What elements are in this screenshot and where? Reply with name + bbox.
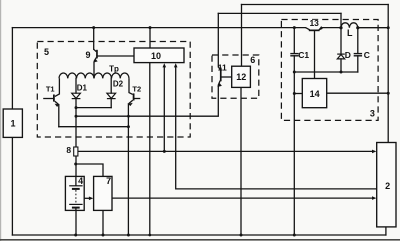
node : right vertical and box 14 output <box>387 92 390 95</box>
wire : feed from top rail down to transistor 9 <box>93 28 95 50</box>
component 8 <box>74 147 78 156</box>
svg-text:14: 14 <box>310 89 320 99</box>
svg-text:Tp: Tp <box>109 64 119 73</box>
wire : box 12 top pin up to topmost rail <box>241 5 243 67</box>
wire : transistor 11 collector to box 12 <box>222 76 232 78</box>
svg-text:5: 5 <box>44 47 49 57</box>
inductor L <box>341 23 358 28</box>
wire : C1 branch below capacitor to bottom rail <box>293 56 295 235</box>
wire : box 14 right output to right vertical <box>327 92 388 94</box>
svg-text:11: 11 <box>218 62 227 72</box>
wire : box 12 bottom pin down to bottom rail <box>240 87 242 235</box>
transformer Tp primary winding <box>59 73 129 78</box>
node : bottom rail at C1 line <box>293 234 296 237</box>
wire : topmost rail y=4.5 <box>242 4 389 6</box>
diode D <box>337 54 345 59</box>
dashed box 6 <box>212 55 259 98</box>
wire : component 8 junction to box 7 top <box>76 164 103 176</box>
wire : T1 emitter vertical <box>58 105 60 127</box>
svg-text:D1: D1 <box>77 84 88 93</box>
wire : D1 branch from winding tap down to component 8 <box>75 78 77 93</box>
wire : box 10 top pin to top rail <box>149 28 151 48</box>
wire : box 10 left bottom pin down to bottom rail <box>149 63 151 235</box>
wire : box 7 bottom pin to bottom rail <box>102 210 104 235</box>
wire : feed from upper rail down to transistor 11 base <box>217 13 219 66</box>
wire : upper rail y=13.4 <box>218 12 341 14</box>
svg-text:12: 12 <box>236 72 246 82</box>
wire : C branch from L right terminal down <box>357 28 359 54</box>
arrowhead into box 10 pin at x=164 <box>163 63 167 67</box>
wire : battery 4 output arrow to box 7 <box>84 197 90 199</box>
node : bottom rail at box 10 pin <box>148 234 151 237</box>
node : component 8 bottom junction <box>74 163 77 166</box>
wire : main top rail y=27.6 <box>12 27 305 29</box>
node : D branch and bottom rail of box 3 <box>340 71 343 74</box>
svg-text:10: 10 <box>151 51 161 61</box>
svg-text:4: 4 <box>78 176 83 186</box>
svg-text:C: C <box>364 50 370 60</box>
wire : rail from component 8 to block 2 arrow <box>78 150 374 152</box>
diode D2 <box>107 93 116 98</box>
node : top rail and box 10 pin <box>149 26 152 29</box>
arrowhead into block 2 upper <box>372 150 376 154</box>
dashed box 3 <box>281 20 378 121</box>
node : mid rail and box 10 arrow pin <box>163 150 166 153</box>
block 14 <box>302 79 326 108</box>
wire : outer loop left edge above block 1 <box>11 28 13 109</box>
capacitor C <box>354 54 362 56</box>
svg-text:T1: T1 <box>46 85 55 94</box>
node : D1 branch upper <box>75 106 78 109</box>
wire : C1 branch from top rail down <box>293 28 295 54</box>
svg-text:D: D <box>345 50 351 60</box>
svg-text:D2: D2 <box>113 79 124 88</box>
wire : L right terminal to right vertical <box>358 27 388 29</box>
wire : bottom rail stub up into block 2 <box>385 227 387 235</box>
wire : winding centre tap up to transistor 9 emitter <box>93 62 95 79</box>
wire : transistor 9 collector to box 10 <box>98 55 135 57</box>
node : bottom rail at box 12 line <box>240 234 243 237</box>
svg-text:C1: C1 <box>298 50 309 60</box>
dashed box 5 <box>37 42 190 138</box>
label white backing for 13 <box>309 20 321 26</box>
block 12 <box>232 66 251 87</box>
wire : rail joining D1 and D2 cathodes <box>76 107 111 109</box>
svg-text:6: 6 <box>250 55 255 65</box>
arrowhead battery to box 7 <box>89 197 93 201</box>
block 1 <box>3 109 22 137</box>
wire : outer loop left edge below block 1 <box>11 137 13 235</box>
wire : battery box bottom to bottom rail <box>75 210 77 235</box>
node : L right terminal <box>356 26 359 29</box>
transistor T2 <box>128 93 140 106</box>
svg-text:3: 3 <box>370 109 375 119</box>
wire : bottom ground rail <box>12 234 386 236</box>
node : D1 branch lower <box>75 115 78 118</box>
svg-text:T2: T2 <box>132 85 141 94</box>
node : bottom rail at battery <box>74 234 77 237</box>
wire : box 10 middle pin down to mid rail <box>163 66 165 152</box>
wire : box 7 output line to block 2 <box>112 197 374 199</box>
node : right vertical and L output rail <box>387 26 390 29</box>
transistor 13 <box>306 26 323 31</box>
node : bottom rail at T2 emitter line <box>127 234 130 237</box>
svg-text:1: 1 <box>10 119 15 129</box>
wire : D2 branch from winding tap down to D1-D2 rail <box>110 78 112 93</box>
svg-text:13: 13 <box>309 18 319 28</box>
battery cells inside box 4 <box>69 176 82 210</box>
svg-text:8: 8 <box>66 145 71 155</box>
wire : box 10 right pin down then right to block 2 <box>176 66 376 189</box>
wire : long rail from D1 to transistor 11 emitter <box>76 87 218 117</box>
node : top rail and transistor 9 feed <box>92 26 95 29</box>
wire : corner down to L left terminal <box>340 13 342 27</box>
capacitor C1 <box>290 54 298 56</box>
block 7 <box>94 176 112 210</box>
svg-text:L: L <box>347 28 353 38</box>
node : bottom rail at box 7 <box>102 234 105 237</box>
arrowhead into block 2 lower <box>372 196 376 200</box>
wire : winding right end down to T2 collector <box>129 78 133 94</box>
wire : T2 emitter vertical down to bottom rail <box>127 104 129 235</box>
wire : diode D branch below L left terminal <box>340 28 342 54</box>
wire : rail joining C1, D and C bottoms <box>294 71 358 73</box>
transistor T1 <box>43 95 59 107</box>
wire : emitter rail joining T1 and T2 <box>59 126 129 128</box>
transistor 9 <box>94 49 98 62</box>
wire : right vertical from topmost rail down to block 2 <box>387 5 389 143</box>
node : C1 branch and box 14 input <box>293 92 296 95</box>
arrowhead into box 10 pin at x=176 <box>174 63 178 67</box>
wire : winding left end down to T1 collector <box>55 78 60 96</box>
wire : top rail right of transistor 13 to L <box>323 27 342 29</box>
node : T2 emitter and long rail <box>127 115 130 118</box>
diode D1 <box>72 93 81 98</box>
node : L left terminal <box>339 26 342 29</box>
svg-text:2: 2 <box>385 181 390 191</box>
block 10 <box>134 48 184 63</box>
transistor 11 <box>218 67 222 87</box>
wire : D1 branch from component 8 to battery box <box>75 156 77 176</box>
wire : C1 branch to box 14 left input <box>294 93 302 95</box>
battery box 4 <box>65 176 84 210</box>
node : T2 emitter and emitter rail <box>127 125 130 128</box>
node : C1 and D-C bottom rail <box>293 71 296 74</box>
wire : transistor 13 base down to box 14 <box>314 30 316 78</box>
node : top rail and C1 branch <box>293 26 296 29</box>
svg-text:7: 7 <box>106 176 111 186</box>
svg-text:9: 9 <box>85 50 90 60</box>
block 2 <box>377 143 396 227</box>
